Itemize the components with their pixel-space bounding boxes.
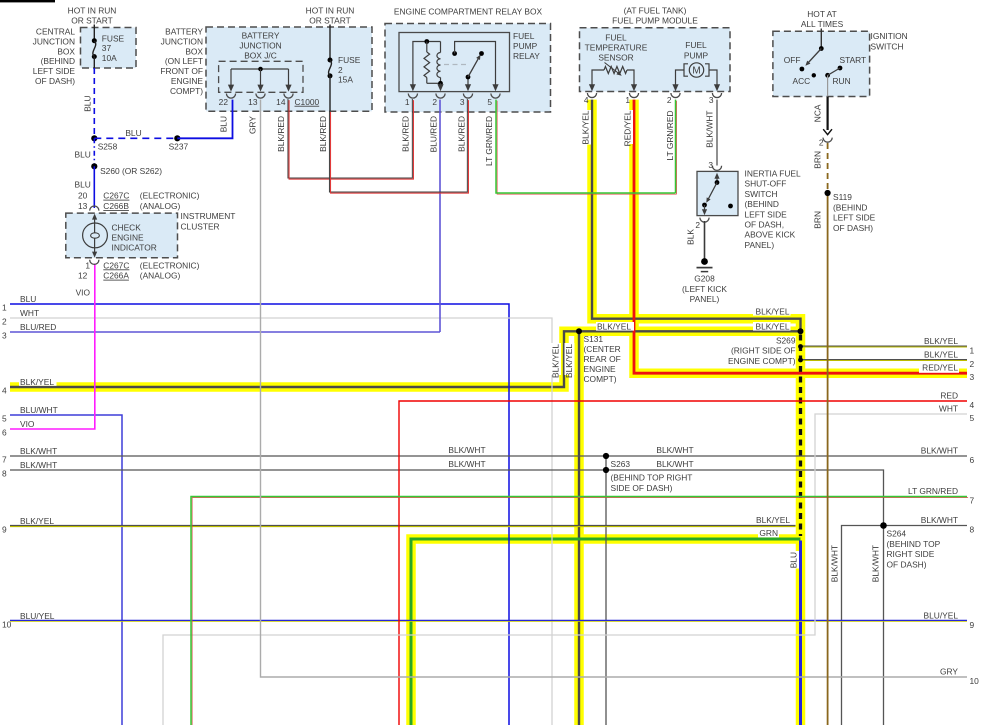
- svg-text:BLK/YEL: BLK/YEL: [924, 336, 958, 346]
- fuel pump motor: [676, 70, 685, 88]
- ignition OFF contact: [800, 67, 805, 72]
- ignition switch feed from HOT AT ALL TIMES: [820, 29, 822, 49]
- svg-text:7: 7: [2, 455, 7, 465]
- wire BLU/RED: relay pin 2 down to line 3: [439, 100, 441, 332]
- svg-text:BLU: BLU: [75, 180, 91, 190]
- svg-text:INDICATOR: INDICATOR: [112, 243, 157, 253]
- inertia switch lever: [708, 183, 718, 201]
- wire BLK/WHT: S264 left branch down to bottom: [842, 526, 884, 725]
- svg-text:ENGINE COMPARTMENT RELAY BOX: ENGINE COMPARTMENT RELAY BOX: [394, 7, 543, 17]
- svg-text:BLK/RED: BLK/RED: [457, 116, 467, 152]
- svg-text:LEFT SIDE: LEFT SIDE: [33, 66, 76, 76]
- instrument cluster box: [66, 213, 178, 258]
- wire BLK/YEL thin: S269 branch to right edge line 2: [801, 358, 968, 360]
- svg-text:2: 2: [695, 220, 700, 230]
- svg-text:13: 13: [248, 97, 258, 107]
- svg-text:6: 6: [2, 428, 7, 438]
- wire BLK/YEL band: fuel temp sensor pin 4 down and right to S269: [592, 100, 801, 332]
- svg-text:ACC: ACC: [793, 76, 811, 86]
- ignition connector 2 symbol: [823, 129, 832, 134]
- svg-text:GRY: GRY: [940, 667, 958, 677]
- svg-text:5: 5: [2, 414, 7, 424]
- svg-text:VIO: VIO: [20, 419, 35, 429]
- svg-text:5: 5: [487, 97, 492, 107]
- svg-text:BLK: BLK: [686, 229, 696, 245]
- svg-text:BLK/WHT: BLK/WHT: [448, 459, 485, 469]
- svg-text:COMPT): COMPT): [584, 374, 617, 384]
- svg-text:S131: S131: [584, 334, 604, 344]
- core black dashed: S269 down: [799, 335, 802, 537]
- svg-text:15A: 15A: [338, 75, 353, 85]
- svg-text:FUSE: FUSE: [102, 33, 125, 43]
- svg-text:LT GRN/RED: LT GRN/RED: [665, 111, 675, 161]
- splice S263 lower: [603, 467, 609, 473]
- inertia switch side contact: [728, 204, 733, 209]
- svg-text:IGNITION: IGNITION: [871, 31, 908, 41]
- wire LT GRN/RED: relay pin 5 to fuel pump pin 2: [497, 101, 676, 194]
- splice S119: [825, 190, 831, 196]
- wire VIO line 6: left edge to cluster pin 1/12: [10, 264, 95, 430]
- wire BLK/YEL dashed band: S269 down to GRN junction: [796, 331, 806, 539]
- wire BLU line 1: left edge right then down to bottom: [10, 304, 509, 725]
- ignition output wire: [827, 75, 829, 96]
- svg-text:BATTERY: BATTERY: [165, 27, 203, 37]
- svg-text:BRN: BRN: [813, 211, 823, 229]
- svg-text:CENTRAL: CENTRAL: [36, 27, 75, 37]
- splice S263 upper: [603, 453, 609, 459]
- svg-text:ENGINE: ENGINE: [171, 76, 204, 86]
- wire WHT line 2: left edge right then down to bottom: [10, 318, 552, 725]
- svg-text:3: 3: [2, 331, 7, 341]
- wire BLK/YEL thin line 9: left edge to highlighted wire: [10, 524, 796, 526]
- svg-text:LEFT SIDE: LEFT SIDE: [833, 213, 876, 223]
- svg-text:ALL TIMES: ALL TIMES: [801, 19, 844, 29]
- wire RED/YEL band: fuel temp sensor pin 1 down then right to edge line 3: [634, 100, 967, 374]
- wire BLU dashed: S258 to S237: [94, 137, 177, 139]
- wire BLK/WHT: S264 right to edge line 8: [884, 525, 968, 527]
- svg-text:10: 10: [2, 620, 12, 630]
- svg-text:HOT IN RUN: HOT IN RUN: [68, 6, 117, 16]
- svg-text:BLU: BLU: [219, 116, 229, 132]
- svg-text:SWITCH: SWITCH: [871, 41, 904, 51]
- svg-text:(AT FUEL TANK): (AT FUEL TANK): [624, 6, 687, 16]
- svg-text:LT GRN/RED: LT GRN/RED: [484, 116, 494, 166]
- svg-text:M: M: [692, 66, 700, 77]
- svg-text:BLK/YEL: BLK/YEL: [551, 344, 561, 378]
- svg-text:20: 20: [78, 191, 88, 201]
- svg-text:BLK/RED: BLK/RED: [318, 116, 328, 152]
- core BLK/YEL: line 4 to S131: [10, 331, 579, 387]
- inertia switch pin 3 cup: [712, 166, 721, 171]
- svg-text:9: 9: [970, 620, 975, 630]
- svg-text:BLK/YEL: BLK/YEL: [756, 515, 790, 525]
- svg-text:HOT IN RUN: HOT IN RUN: [306, 6, 355, 16]
- svg-text:C267C: C267C: [103, 260, 129, 270]
- fuse F2: [328, 58, 333, 63]
- svg-text:22: 22: [219, 97, 229, 107]
- engine compartment relay box: [385, 24, 551, 113]
- fuel temperature sensor wiring: [592, 70, 604, 88]
- svg-text:BLK/RED: BLK/RED: [276, 116, 286, 152]
- svg-text:OFF: OFF: [784, 55, 801, 65]
- wire BLU: S237 to battery junction box pin 22: [177, 100, 232, 139]
- svg-text:2: 2: [970, 359, 975, 369]
- wire BLK/YEL thin: S269 branch to right edge line 1: [801, 345, 968, 347]
- fuel pump module pin cups and numbers: [587, 93, 596, 98]
- splice S260: [91, 163, 97, 169]
- svg-text:BLU/WHT: BLU/WHT: [20, 405, 58, 415]
- svg-text:BLU/YEL: BLU/YEL: [924, 611, 959, 621]
- svg-text:BLU: BLU: [789, 552, 799, 568]
- svg-text:3: 3: [709, 95, 714, 105]
- svg-text:LEFT SIDE: LEFT SIDE: [745, 209, 788, 219]
- wire BLU/YEL line 10: left edge to right edge: [10, 619, 967, 621]
- svg-text:BLU: BLU: [75, 150, 91, 160]
- svg-text:9: 9: [2, 525, 7, 535]
- svg-text:BOX J/C: BOX J/C: [244, 50, 277, 60]
- wire BLU band: below GRN junction to bottom: [796, 539, 806, 725]
- svg-text:BLK/YEL: BLK/YEL: [924, 350, 958, 360]
- BJB J/C bus bar: [231, 68, 289, 70]
- relay coil resistor branch: [424, 39, 429, 44]
- svg-text:G208: G208: [694, 274, 715, 284]
- S269 branch junction line 2: [798, 358, 803, 363]
- svg-text:SWITCH: SWITCH: [745, 189, 778, 199]
- svg-text:BLK/WHT: BLK/WHT: [921, 446, 958, 456]
- svg-text:1: 1: [85, 260, 90, 270]
- svg-text:NCA: NCA: [813, 104, 823, 122]
- svg-text:S263: S263: [611, 459, 631, 469]
- wire BLU/RED line 3: left edge to relay pin 2 wire: [10, 331, 440, 333]
- svg-text:(BEHIND: (BEHIND: [833, 202, 867, 212]
- svg-text:(ELECTRONIC): (ELECTRONIC): [140, 260, 200, 270]
- svg-text:WHT: WHT: [939, 404, 958, 414]
- svg-text:(BEHIND: (BEHIND: [745, 199, 779, 209]
- svg-text:(BEHIND TOP RIGHT: (BEHIND TOP RIGHT: [611, 473, 693, 483]
- BJB pin cups and numbers C1000: [226, 94, 235, 99]
- svg-text:(ANALOG): (ANALOG): [140, 271, 181, 281]
- svg-text:C266A: C266A: [103, 271, 129, 281]
- wire LT GRN/RED line 7 right: right edge left then down to bottom: [192, 498, 968, 725]
- svg-text:BLK/YEL: BLK/YEL: [597, 321, 631, 331]
- relay pin 1 to coil top: [413, 42, 441, 88]
- svg-text:BLK/WHT: BLK/WHT: [830, 545, 840, 582]
- svg-text:1: 1: [405, 97, 410, 107]
- svg-text:CHECK: CHECK: [112, 222, 142, 232]
- svg-text:HOT AT: HOT AT: [807, 9, 836, 19]
- svg-text:(LEFT KICK: (LEFT KICK: [682, 284, 727, 294]
- svg-text:BLU/RED: BLU/RED: [20, 322, 56, 332]
- svg-text:JUNCTION: JUNCTION: [161, 36, 203, 46]
- svg-text:REAR OF: REAR OF: [584, 354, 621, 364]
- wire RED line 4 right: right edge left then down to bottom: [399, 401, 967, 725]
- svg-text:RED/YEL: RED/YEL: [623, 110, 633, 146]
- svg-text:BLK/WHT: BLK/WHT: [448, 445, 485, 455]
- svg-text:2: 2: [667, 95, 672, 105]
- svg-text:(ANALOG): (ANALOG): [140, 201, 181, 211]
- svg-text:ENGINE: ENGINE: [112, 233, 145, 243]
- splice S269: [798, 328, 804, 334]
- wire BLK/YEL band: S131 down to bottom: [574, 331, 584, 725]
- splice S131: [576, 328, 582, 334]
- ignition ACC contact: [812, 73, 816, 77]
- svg-text:OR START: OR START: [71, 16, 113, 26]
- core GRN: [411, 539, 801, 725]
- BJB pin 13 drop: [260, 69, 262, 87]
- svg-text:JUNCTION: JUNCTION: [239, 40, 281, 50]
- relay coil inductor: [440, 42, 442, 53]
- svg-text:OF DASH,: OF DASH,: [745, 220, 785, 230]
- fuel temperature sensor arrow: [605, 63, 620, 75]
- ground G208: [701, 258, 708, 265]
- svg-text:BOX: BOX: [185, 46, 203, 56]
- svg-text:FUEL: FUEL: [605, 32, 627, 42]
- battery junction box J/C inner box: [219, 61, 303, 92]
- core BLK/YEL: S131 to S269: [579, 330, 801, 332]
- core BLK/YEL: pin 4 wire: [592, 100, 801, 332]
- inertia fuel shut-off switch box: [697, 171, 738, 215]
- svg-text:ENGINE: ENGINE: [584, 364, 617, 374]
- svg-text:(BEHIND: (BEHIND: [41, 56, 75, 66]
- svg-text:3: 3: [708, 160, 713, 170]
- svg-text:37: 37: [102, 43, 112, 53]
- fuse F37: [92, 38, 97, 43]
- wire BLK/YEL band: S131 to S269: [579, 327, 801, 337]
- svg-text:OR START: OR START: [309, 16, 351, 26]
- svg-text:PANEL): PANEL): [690, 294, 720, 304]
- svg-text:4: 4: [2, 386, 7, 396]
- svg-text:BRN: BRN: [813, 151, 823, 169]
- svg-text:WHT: WHT: [20, 308, 39, 318]
- wire BLU: S260 to instrument cluster pin 20/13: [93, 166, 95, 208]
- svg-text:BLU/YEL: BLU/YEL: [20, 611, 55, 621]
- svg-text:3: 3: [970, 372, 975, 382]
- svg-text:RUN: RUN: [833, 76, 851, 86]
- svg-text:(RIGHT SIDE OF: (RIGHT SIDE OF: [731, 346, 796, 356]
- svg-text:ENGINE COMPT): ENGINE COMPT): [728, 356, 796, 366]
- svg-text:BLU: BLU: [83, 96, 93, 112]
- relay pin 2 drop: [440, 83, 442, 87]
- svg-text:BLK/WHT: BLK/WHT: [871, 545, 881, 582]
- svg-text:14: 14: [276, 97, 286, 107]
- wire BLU dash-dot: S258 to S260: [93, 138, 95, 166]
- svg-text:VIO: VIO: [76, 287, 91, 297]
- splice S258: [91, 135, 97, 141]
- svg-text:13: 13: [78, 201, 88, 211]
- wire BRN: S119 down to bottom: [827, 193, 829, 725]
- svg-text:BLK/YEL: BLK/YEL: [564, 344, 574, 378]
- wire BLK/WHT line 7: left edge to right edge through S263: [10, 455, 967, 457]
- svg-text:C266B: C266B: [103, 201, 129, 211]
- splice S237: [174, 135, 180, 141]
- svg-text:4: 4: [584, 95, 589, 105]
- cluster pin cup bottom: [90, 260, 99, 265]
- svg-text:4: 4: [970, 400, 975, 410]
- svg-text:ABOVE KICK: ABOVE KICK: [745, 230, 796, 240]
- svg-text:CLUSTER: CLUSTER: [181, 221, 220, 231]
- svg-text:BOX: BOX: [57, 46, 75, 56]
- svg-text:3: 3: [460, 97, 465, 107]
- ignition RUN contact: [825, 73, 830, 78]
- svg-text:SHUT-OFF: SHUT-OFF: [745, 179, 787, 189]
- wire BLK/WHT: S263 down to bottom: [605, 456, 607, 725]
- wire below fuse 37: [93, 57, 95, 68]
- feed wire HOT IN RUN OR START to fuse 37: [93, 25, 95, 41]
- page border fragment top-left: [0, 0, 55, 2]
- wire BLU/WHT line 5: left edge then down to bottom: [10, 415, 122, 725]
- fuel pump module box: [580, 28, 731, 92]
- svg-text:OF DASH): OF DASH): [887, 559, 927, 569]
- svg-text:S260 (OR S262): S260 (OR S262): [100, 166, 162, 176]
- svg-text:BLK/YEL: BLK/YEL: [20, 377, 54, 387]
- inertia switch up arrow: [716, 175, 718, 183]
- relay mechanical link dashed: [444, 64, 466, 66]
- svg-text:FUEL: FUEL: [685, 40, 707, 50]
- white label backgrounds over yellow bands: [19, 378, 57, 386]
- core RED/YEL: [634, 100, 967, 374]
- svg-text:1: 1: [970, 345, 975, 355]
- wire BLU dashed: fuse 37 to S258: [93, 68, 95, 138]
- wire BLK/WHT: fuel pump pin 3 to inertia switch pin 3: [716, 100, 718, 166]
- svg-text:RELAY: RELAY: [513, 51, 540, 61]
- svg-text:GRN: GRN: [759, 528, 778, 538]
- svg-text:S237: S237: [169, 142, 189, 152]
- svg-text:S119: S119: [833, 192, 852, 202]
- svg-text:BLU: BLU: [125, 128, 141, 138]
- svg-text:S269: S269: [776, 335, 796, 345]
- svg-text:BLU: BLU: [20, 294, 36, 304]
- svg-text:(ON LEFT: (ON LEFT: [165, 56, 203, 66]
- svg-text:START: START: [840, 55, 867, 65]
- battery junction box: [206, 27, 372, 111]
- svg-text:BLK/YEL: BLK/YEL: [756, 306, 790, 316]
- svg-text:BLK/RED: BLK/RED: [401, 116, 411, 152]
- svg-text:FUEL PUMP MODULE: FUEL PUMP MODULE: [612, 16, 698, 26]
- svg-text:BLK/WHT: BLK/WHT: [20, 460, 57, 470]
- svg-text:OF DASH): OF DASH): [833, 223, 873, 233]
- svg-text:JUNCTION: JUNCTION: [33, 36, 75, 46]
- svg-text:BLK/YEL: BLK/YEL: [20, 516, 54, 526]
- svg-text:8: 8: [970, 524, 975, 534]
- svg-text:S258: S258: [98, 142, 118, 152]
- svg-text:PUMP: PUMP: [684, 50, 709, 60]
- svg-text:SIDE OF DASH): SIDE OF DASH): [611, 483, 673, 493]
- svg-text:RED: RED: [940, 391, 958, 401]
- central junction box (fuse 37 box): [81, 28, 137, 69]
- svg-text:RIGHT SIDE: RIGHT SIDE: [887, 549, 935, 559]
- core BLU below GRN junction: [799, 541, 802, 725]
- svg-text:FUSE: FUSE: [338, 55, 361, 65]
- svg-text:BLU/RED: BLU/RED: [429, 116, 439, 152]
- svg-text:8: 8: [2, 469, 7, 479]
- svg-text:2: 2: [338, 65, 343, 75]
- BJB pin 14 drop: [288, 69, 290, 87]
- svg-text:BLK/WHT: BLK/WHT: [656, 445, 693, 455]
- svg-text:2: 2: [2, 317, 7, 327]
- inertia switch down arrow to pin 2: [704, 205, 706, 212]
- svg-text:PUMP: PUMP: [513, 41, 538, 51]
- relay switch lever: [468, 57, 479, 77]
- svg-text:C1000: C1000: [295, 97, 320, 107]
- relay switch fixed contact to pin 5: [452, 51, 457, 56]
- svg-text:2: 2: [432, 97, 437, 107]
- svg-text:(BEHIND TOP: (BEHIND TOP: [887, 539, 941, 549]
- core BLK/YEL: S131 down: [578, 331, 580, 725]
- cluster pin cup top: [90, 206, 99, 211]
- svg-text:BLK/YEL: BLK/YEL: [756, 321, 790, 331]
- svg-text:7: 7: [970, 495, 975, 505]
- wire BLK: inertia pin 2 to ground: [704, 221, 706, 260]
- ignition START contact: [838, 66, 843, 71]
- svg-text:SENSOR: SENSOR: [598, 53, 633, 63]
- svg-text:12: 12: [78, 271, 88, 281]
- svg-text:GRY: GRY: [248, 116, 258, 134]
- splice S264: [880, 522, 887, 529]
- svg-text:1: 1: [625, 95, 630, 105]
- svg-text:COMPT): COMPT): [170, 86, 203, 96]
- svg-text:BLK/WHT: BLK/WHT: [705, 111, 715, 148]
- wire BLK/WHT: S264 down to bottom: [883, 526, 885, 725]
- svg-text:BLK/WHT: BLK/WHT: [921, 515, 958, 525]
- wire BLK/RED: battery junction box pin 14 to relay pin 1: [288, 99, 412, 178]
- relay switch pivot pin 3: [467, 77, 469, 87]
- wire below fuse 2: [329, 76, 331, 111]
- svg-text:BLK/WHT: BLK/WHT: [656, 459, 693, 469]
- svg-text:(ELECTRONIC): (ELECTRONIC): [140, 191, 200, 201]
- wire WHT line 5 right: right edge then down, left and down to bottom: [163, 414, 967, 725]
- svg-text:PANEL): PANEL): [745, 240, 775, 250]
- svg-text:5: 5: [970, 413, 975, 423]
- svg-text:S264: S264: [887, 529, 907, 539]
- wire BRN dashed: ignition connector to S119: [827, 143, 829, 193]
- svg-text:RED/YEL: RED/YEL: [922, 363, 958, 373]
- wire BLK/YEL band: line 4 left edge to S131: [10, 331, 579, 387]
- wire GRY line 10 right: from battery junction box pin 13: [261, 100, 968, 677]
- svg-text:INSTRUMENT: INSTRUMENT: [181, 211, 236, 221]
- svg-text:6: 6: [970, 455, 975, 465]
- svg-text:BLK/WHT: BLK/WHT: [20, 446, 57, 456]
- svg-text:(CENTER: (CENTER: [584, 344, 621, 354]
- svg-text:FRONT OF: FRONT OF: [160, 66, 203, 76]
- svg-text:TEMPERATURE: TEMPERATURE: [585, 42, 648, 52]
- relay pin cups and numbers: [408, 94, 417, 99]
- svg-text:BATTERY: BATTERY: [242, 31, 280, 41]
- ignition switch box: [773, 31, 870, 96]
- fuel pump relay inner box: [399, 33, 510, 92]
- svg-text:BLK/YEL: BLK/YEL: [581, 110, 591, 144]
- check engine indicator: [92, 214, 97, 220]
- svg-text:LT GRN/RED: LT GRN/RED: [908, 486, 958, 496]
- svg-text:INERTIA FUEL: INERTIA FUEL: [745, 169, 802, 179]
- svg-text:FUEL: FUEL: [513, 31, 535, 41]
- BJB pin 22 drop: [230, 69, 232, 87]
- svg-text:10: 10: [970, 676, 980, 686]
- svg-text:1: 1: [2, 303, 7, 313]
- fuse F2 feed wire: [329, 25, 331, 61]
- wire BLK/WHT line 8: left edge right then down to S264: [10, 470, 884, 526]
- svg-text:10A: 10A: [102, 53, 117, 63]
- S269 branch junction line 1: [798, 344, 803, 349]
- svg-text:OF DASH): OF DASH): [35, 76, 75, 86]
- svg-text:2: 2: [819, 138, 824, 148]
- wire BLK/RED: fuse 2 to relay pin 3: [329, 99, 467, 192]
- svg-text:C267C: C267C: [103, 191, 129, 201]
- ignition switch pivot and lever: [819, 46, 824, 51]
